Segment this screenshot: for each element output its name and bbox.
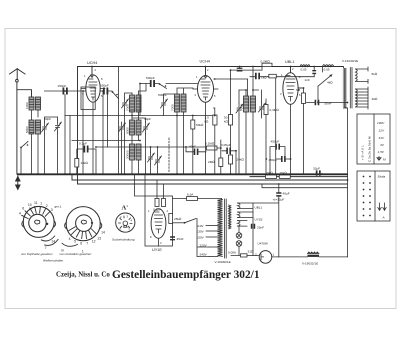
wire left frame vertical (77, 67, 79, 175)
svg-text:6: 6 (22, 207, 24, 211)
voltage tap 240V (209, 256, 218, 258)
svg-text:Sockelschaltung: Sockelschaltung (112, 238, 135, 242)
fuse F1 6.3A (187, 197, 198, 201)
capacitor C21 40uF (276, 192, 281, 196)
wire UBL1 right pin (298, 88, 303, 93)
svg-text:31V: 31V (379, 136, 385, 140)
voltage tap 130V (206, 230, 218, 232)
capacitor C26 450uF (275, 144, 280, 150)
svg-text:0,05: 0,05 (324, 68, 330, 72)
wire L3 L4 links (132, 116, 139, 175)
socket SK2 rear view (62, 207, 102, 247)
svg-text:190V: 190V (377, 121, 385, 125)
svg-text:240V: 240V (200, 253, 208, 257)
wire C8 (157, 147, 159, 174)
resistor R16 in box (162, 199, 166, 207)
transformer T2 heater winding c (238, 221, 248, 227)
svg-text:31Ω: 31Ω (248, 250, 254, 254)
label SK2 pins (61, 230, 105, 253)
wire trimmer C2 to bus (57, 117, 59, 174)
wire R11 (303, 104, 305, 175)
wire left sub line (72, 140, 140, 142)
svg-text:1kΩ: 1kΩ (261, 76, 267, 80)
ground symbol (15, 176, 21, 191)
resistor R9 0.2M on top bus (262, 63, 272, 66)
lamp LP2 (236, 241, 242, 247)
capacitor C4 650pF (103, 88, 108, 95)
resistor R10 1k (269, 74, 277, 78)
wire C15 line (276, 158, 291, 160)
svg-text:5000: 5000 (25, 126, 29, 133)
svg-text:A': A' (122, 205, 129, 212)
tube U3 UBL1 (283, 67, 303, 175)
socket SK1 top view (22, 206, 58, 245)
svg-text:von Kopfseite gesehen: von Kopfseite gesehen (21, 252, 53, 256)
trimmer C25 (119, 122, 126, 134)
coil L5 IF1 pair (175, 94, 187, 112)
wire C12 line (222, 151, 236, 174)
wire tube1 column b (103, 91, 108, 174)
resistor R14 15k (279, 175, 290, 178)
wire screen dropper (275, 78, 277, 174)
svg-text:40Ω: 40Ω (372, 97, 378, 101)
svg-text:650pF: 650pF (100, 84, 109, 88)
antenna (10, 69, 32, 97)
svg-text:Skala: Skala (378, 175, 386, 179)
svg-text:UY1E: UY1E (255, 218, 263, 222)
lamp LP1 (236, 233, 242, 239)
wire L7 links (132, 84, 146, 116)
svg-text:0,1μF: 0,1μF (153, 208, 161, 212)
tube shield box U1 (81, 87, 95, 110)
capacitor C20 32uF (316, 170, 321, 175)
switch S2 (112, 91, 119, 98)
svg-text:6,3A: 6,3A (187, 193, 194, 197)
svg-text:20kΩ: 20kΩ (237, 158, 245, 162)
wire C10 (164, 94, 175, 116)
wire mains top (173, 198, 222, 200)
svg-text:Czeija, Nissl u. Co: Czeija, Nissl u. Co (56, 272, 110, 279)
fuse F2 0.05A (241, 254, 248, 257)
wire bus line D (250, 176, 348, 178)
svg-text:A: A (382, 216, 385, 220)
transformer T2 heater winding a (238, 203, 254, 256)
resistor R5 3.5k vertical (213, 115, 217, 125)
trimmer C1 (42, 122, 49, 134)
svg-text:6: 6 (80, 241, 82, 245)
svg-text:12V: 12V (379, 129, 385, 133)
svg-text:7: 7 (86, 241, 88, 245)
transformer T1 secondary lo-Z taps (356, 87, 369, 109)
wire C25 (121, 134, 123, 174)
transformer T2 power primary (218, 199, 223, 257)
svg-text:1nF: 1nF (305, 78, 310, 82)
wire R1 (76, 149, 78, 174)
table terminal strip box (357, 171, 390, 221)
svg-text:20000: 20000 (126, 150, 130, 159)
svg-text:130V: 130V (197, 230, 205, 234)
wire AVC droppers (65, 116, 70, 175)
capacitor C23 25nF heater (251, 224, 255, 229)
svg-text:25kΩ: 25kΩ (174, 217, 182, 221)
svg-text:0,05A: 0,05A (228, 251, 237, 255)
wire C11 line (186, 147, 206, 152)
wire main ground bus (17, 173, 348, 175)
wire S2 down (118, 67, 120, 175)
trimmer C10 (161, 98, 168, 110)
svg-text:15kΩ: 15kΩ (280, 171, 288, 175)
voltage tap 220V (209, 246, 218, 248)
wire switch feed (173, 222, 185, 224)
trimmer C6 (143, 122, 150, 134)
trimmer C14 (259, 102, 266, 114)
wire screen feed line (231, 67, 263, 115)
resistor R15 in box (155, 199, 159, 207)
coil L7 RF pair (130, 95, 142, 112)
svg-text:450μF: 450μF (271, 140, 280, 144)
resistor R13 15k (266, 175, 277, 178)
resistor R17 25k (169, 214, 173, 224)
wire C7 (150, 147, 152, 174)
wire L6 links (239, 90, 259, 174)
wire osc grid line (96, 146, 206, 148)
svg-text:500pF: 500pF (146, 76, 155, 80)
wire C16 stub (239, 67, 241, 68)
svg-text:14: 14 (51, 240, 55, 244)
wire R6 (230, 125, 232, 155)
loudspeaker LS1 (259, 251, 272, 264)
wire bus line B (72, 174, 348, 180)
svg-text:110V: 110V (197, 224, 205, 228)
svg-text:7000: 7000 (126, 104, 130, 111)
tube U1 UCH4 (81, 67, 105, 175)
svg-text:11: 11 (34, 201, 38, 205)
wire top bus (78, 66, 344, 68)
resistor R2 50k vertical (191, 120, 195, 129)
wire box feeds (135, 174, 164, 198)
capacitor C5 0.1uF (84, 146, 89, 153)
wire tube1 column a (82, 91, 84, 174)
svg-text:10: 10 (28, 203, 32, 207)
svg-text:150V: 150V (197, 236, 205, 240)
wire antenna down lead (16, 90, 18, 174)
switch S1 wave change (20, 142, 28, 149)
svg-text:kΩ: kΩ (224, 120, 229, 124)
svg-text:0,05μF: 0,05μF (221, 143, 231, 147)
label SK1 pins (19, 201, 55, 250)
svg-text:ger.1: ger.1 (55, 205, 62, 209)
wire mid AVC bus (65, 115, 213, 117)
wire R7 (230, 164, 232, 174)
svg-text:2: 2 (255, 253, 257, 257)
wire C24 (125, 93, 133, 174)
svg-text:32μF: 32μF (313, 167, 320, 171)
svg-text:7000: 7000 (171, 104, 175, 111)
wire speaker to right edge (272, 256, 348, 258)
svg-text:+ B r A S L: + B r A S L (361, 145, 365, 160)
trimmer C24 (122, 98, 129, 110)
rectifier box enclosure (145, 196, 173, 246)
transformer T2 heater winding b (238, 212, 254, 218)
wire L2 bottom to bus (32, 134, 39, 174)
svg-text:von rückwärts gesehen: von rückwärts gesehen (60, 252, 92, 256)
capacitor C22 25nF (170, 236, 175, 240)
coil L4 osc pair lower (130, 144, 142, 160)
wire R3 to R4 (217, 140, 221, 158)
wire grid line tube1 (45, 90, 87, 92)
tube U4 UY1E (151, 209, 166, 246)
svg-text:5kΩ: 5kΩ (372, 72, 378, 76)
svg-text:25nF: 25nF (177, 237, 184, 241)
resistor R18 ballast (308, 252, 320, 257)
capacitor C9 500pF (150, 80, 155, 87)
wire L5 links (177, 88, 193, 174)
table voltages box (357, 114, 390, 164)
svg-text:5000: 5000 (126, 127, 130, 134)
wire tube2 grid line (140, 84, 198, 116)
wire switch S1 stem (20, 148, 22, 174)
svg-text:15kΩ: 15kΩ (266, 171, 274, 175)
wire L1 to L2 (32, 110, 39, 120)
wire R4 (220, 167, 222, 175)
wire tube2 anode link (214, 79, 248, 96)
wire C13 (238, 90, 240, 174)
svg-text:0,2MΩ: 0,2MΩ (261, 60, 271, 64)
svg-text:14: 14 (101, 230, 105, 234)
trimmer C2 (55, 120, 62, 133)
socket SK3 schaltbild (116, 213, 135, 232)
capacitor C15 450pF (281, 156, 286, 162)
svg-text:UBL1: UBL1 (255, 206, 263, 210)
choke CH2 0.05 (323, 65, 334, 67)
coil L6 IF2 pair (244, 96, 256, 112)
wire lamp column (231, 226, 240, 255)
svg-text:50nF: 50nF (325, 102, 332, 106)
capacitor C3 150pF (63, 88, 68, 95)
resistor R11 0.1M vertical (302, 93, 306, 104)
svg-text:M: M (383, 158, 386, 162)
wire right edge vertical (347, 108, 349, 257)
coil L1 antenna primary pair (29, 97, 41, 110)
svg-text:V-19030/1E: V-19030/1E (215, 260, 231, 264)
wire C26 line (270, 147, 285, 174)
transformer T1 output primary (344, 67, 348, 109)
tube pin number labels (82, 67, 301, 245)
choke CH1 0.05 (300, 65, 310, 67)
svg-text:50kΩ: 50kΩ (196, 123, 204, 127)
resistor R1 10k (75, 159, 79, 168)
svg-text:kΩ: kΩ (205, 120, 210, 124)
svg-text:0.1MΩ: 0.1MΩ (205, 142, 215, 146)
wire C14 (261, 90, 263, 118)
trimmer C13 (236, 103, 243, 115)
wire screen line (250, 67, 323, 91)
trimmer C8 (155, 155, 162, 167)
svg-text:4: 4 (69, 237, 71, 241)
potentiometer R12 4k (318, 74, 333, 86)
svg-text:2: 2 (46, 204, 48, 208)
wire C6 (132, 118, 146, 174)
svg-text:12: 12 (92, 240, 96, 244)
wire C21 branch (253, 184, 279, 257)
svg-text:5: 5 (74, 240, 76, 244)
svg-text:25nF: 25nF (257, 226, 264, 230)
resistor R4 2M vertical (219, 158, 223, 167)
switch S4 mains selector (184, 219, 196, 224)
wire bus line C (78, 174, 348, 184)
svg-text:1,5V: 1,5V (378, 150, 385, 154)
svg-text:4kΩ: 4kΩ (327, 81, 333, 85)
svg-text:13: 13 (97, 236, 101, 240)
capacitor C17 (255, 73, 260, 80)
svg-text:3: 3 (51, 208, 53, 212)
capacitor C19 50nF (315, 100, 320, 106)
resistor R7 20k vertical (228, 155, 232, 164)
svg-text:Gestelleinbauempfänger 302/1: Gestelleinbauempfänger 302/1 (112, 269, 260, 281)
coil L2 band coil pair (29, 120, 41, 134)
voltage tap 110V (206, 225, 218, 227)
dashed gang link (168, 138, 170, 172)
svg-text:U470W: U470W (258, 242, 268, 246)
svg-text:150pF: 150pF (58, 84, 67, 88)
wire pot down (317, 86, 319, 102)
svg-text:C 2a 2b 5a 5b 6 M: C 2a 2b 5a 5b 6 M (368, 136, 372, 162)
transformer T2 core (225, 199, 227, 258)
resistor R6 50k vertical (228, 115, 232, 126)
wire tap join (197, 219, 209, 257)
voltage tap 150V (206, 236, 218, 238)
transformer T1 core (350, 68, 352, 109)
wire C5 line (78, 149, 97, 174)
resistor R3 0.1M horizontal (207, 146, 218, 150)
svg-text:UCH4: UCH4 (87, 61, 97, 65)
switch S3 (159, 83, 167, 88)
svg-text:40nF: 40nF (189, 145, 196, 149)
svg-text:0,05: 0,05 (301, 68, 307, 72)
capacitor C11 40nF (194, 149, 199, 156)
svg-text:4: 4 (19, 212, 21, 216)
svg-text:7: 7 (45, 246, 47, 250)
tube U2 UCH4 (193, 67, 218, 175)
svg-text:NB: NB (296, 88, 300, 92)
wire R8 (265, 99, 267, 174)
svg-text:UCH4: UCH4 (200, 60, 210, 64)
transformer T2 secondary HT (229, 205, 231, 229)
wire AVC line left (64, 95, 66, 116)
svg-text:Wellenschalter: Wellenschalter (43, 259, 64, 263)
svg-text:2MΩ: 2MΩ (208, 160, 215, 164)
trimmer C7 (148, 152, 155, 164)
svg-text:1000: 1000 (25, 102, 29, 109)
svg-text:1: 1 (273, 253, 275, 257)
resistor R8 0.3M vertical (264, 105, 268, 115)
svg-text:10kΩ: 10kΩ (81, 161, 89, 165)
svg-text:1: 1 (40, 202, 42, 206)
wire C18 stub (313, 67, 315, 77)
wire bus sub line D2 (262, 184, 348, 188)
wire to speaker (247, 255, 259, 257)
svg-text:40μF: 40μF (283, 192, 290, 196)
svg-text:30pF: 30pF (144, 117, 151, 121)
wire tone line (307, 102, 348, 104)
capacitor C12 0.05uF (226, 148, 231, 155)
capacitor C18 1nF (312, 70, 316, 74)
svg-text:0,3MΩ: 0,3MΩ (270, 108, 280, 112)
svg-text:V-19032/1E: V-19032/1E (302, 262, 318, 266)
wire C4 line (100, 90, 112, 92)
wire R2 (192, 116, 194, 175)
transformer T1 secondary hi-Z (356, 67, 369, 83)
svg-text:UBL1: UBL1 (285, 60, 295, 64)
svg-text:30pF: 30pF (44, 117, 51, 121)
svg-text:UY1E: UY1E (152, 248, 162, 252)
wire trimmer C1 to bus (45, 117, 58, 174)
wire R5 (214, 108, 215, 174)
capacitor C16 50pF top (237, 68, 243, 72)
svg-text:V-19230/1E: V-19230/1E (342, 59, 358, 63)
coil L3 osc pair (130, 120, 142, 135)
